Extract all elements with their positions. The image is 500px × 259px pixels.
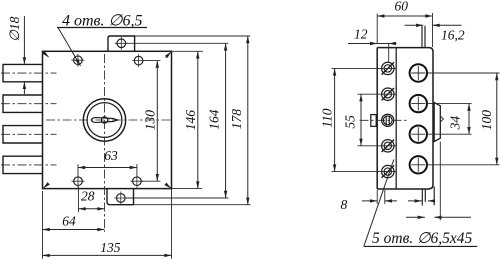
bolt circle 1 bbox=[410, 64, 427, 81]
faceplate right edge / body left line bbox=[395, 48, 397, 189]
top vertical pin bbox=[422, 26, 425, 48]
bolt 1 (top) bbox=[3, 64, 43, 81]
bolt 3 centerline bbox=[1, 133, 57, 135]
dimension 63 bbox=[78, 167, 137, 169]
latch small arrow bbox=[441, 117, 444, 122]
svg-text:64: 64 bbox=[62, 214, 76, 229]
svg-text:60: 60 bbox=[395, 0, 409, 13]
extension line bottom tab bottom right bbox=[134, 204, 251, 206]
svg-text:55: 55 bbox=[342, 115, 357, 129]
svg-text:16,2: 16,2 bbox=[441, 28, 465, 43]
svg-text:63: 63 bbox=[104, 148, 118, 163]
bottom tongue outer bbox=[422, 189, 425, 206]
body bottom edge bbox=[377, 188, 429, 190]
bolt 4 axis extension bbox=[427, 164, 499, 166]
svg-text:8: 8 bbox=[341, 197, 348, 212]
screw 5 bbox=[382, 165, 394, 177]
corner arrow bottom-right bbox=[166, 184, 171, 188]
top tab hole bbox=[117, 39, 126, 48]
extension line bottom tab hole right bbox=[125, 197, 228, 199]
keyhole axis line right view bbox=[360, 119, 409, 121]
keyhole outer circle bbox=[83, 99, 125, 141]
svg-text:100: 100 bbox=[479, 110, 494, 131]
bottom dim arrows row2 bbox=[406, 216, 471, 218]
mounting hole bottom-left bbox=[74, 177, 83, 186]
mounting hole top-left bbox=[74, 56, 83, 65]
key slot profile bbox=[92, 118, 118, 123]
bolt 3 bbox=[3, 126, 43, 143]
label 5 otv underline bbox=[364, 245, 477, 247]
bolt 3 axis extension bbox=[427, 133, 471, 135]
bolt 2 axis extension bbox=[427, 103, 471, 105]
mounting hole top-right bbox=[134, 56, 143, 65]
mounting hole bottom-right bbox=[133, 177, 142, 186]
extension lines 135 bbox=[43, 189, 172, 259]
D18 dim line upper bbox=[23, 16, 25, 64]
dimension 164 bbox=[225, 43, 227, 198]
screw 2 bbox=[382, 88, 394, 100]
screw 2 axis bbox=[358, 93, 397, 95]
dimension 12 bbox=[348, 43, 397, 45]
dimension 100 bbox=[496, 73, 498, 165]
screw 1 bbox=[382, 62, 394, 74]
svg-text:135: 135 bbox=[100, 240, 121, 255]
dimension 16,2 bbox=[405, 24, 424, 26]
key slot center circle bbox=[101, 117, 107, 123]
dimension 130 bbox=[156, 61, 158, 182]
extension line 64 left bbox=[42, 191, 44, 233]
bolt 2 centerline bbox=[1, 103, 57, 105]
latch bolt bbox=[434, 103, 440, 142]
label underline bbox=[57, 27, 147, 29]
dimension 135 bbox=[43, 254, 172, 256]
extension line tab top right bbox=[135, 35, 250, 37]
extension line body bottom right bbox=[172, 188, 203, 190]
top mounting tab bbox=[108, 36, 135, 51]
keyhole vertical centerline bbox=[104, 54, 106, 232]
latch right edge extension line bbox=[439, 142, 441, 221]
screw 4 axis bbox=[358, 145, 397, 147]
bolt 1 centerline bbox=[1, 72, 57, 74]
dimension 64 bbox=[43, 229, 105, 231]
svg-text:28: 28 bbox=[81, 188, 95, 203]
extension line top-right hole bbox=[143, 60, 160, 62]
corner arrow top-right bbox=[166, 52, 172, 58]
bottom mounting tab bbox=[107, 189, 134, 205]
keyhole horizontal centerline bbox=[46, 119, 171, 121]
svg-text:∅18: ∅18 bbox=[7, 16, 22, 42]
svg-text:146: 146 bbox=[183, 110, 198, 131]
leader line 5 otv bbox=[364, 160, 394, 247]
D18 dim line lower bbox=[23, 83, 25, 94]
dimension 110 bbox=[334, 68, 336, 171]
bolt circle 3 bbox=[410, 126, 427, 143]
extension line body top right bbox=[172, 50, 204, 52]
svg-text:5 отв. ∅6,5х45: 5 отв. ∅6,5х45 bbox=[372, 230, 473, 247]
screw 4 bbox=[382, 140, 394, 152]
extension line bottom-right hole bbox=[141, 180, 160, 182]
bolt 4 (bottom) bbox=[3, 156, 43, 173]
dimension 34 bbox=[468, 104, 470, 135]
extension line tab hole center right bbox=[126, 42, 228, 44]
svg-text:34: 34 bbox=[447, 116, 462, 131]
svg-text:12: 12 bbox=[354, 27, 368, 42]
dimension 28 bbox=[79, 208, 105, 210]
extension lines 63 dim bbox=[78, 164, 137, 177]
bottom tongue inner bbox=[433, 187, 435, 206]
svg-text:178: 178 bbox=[229, 109, 244, 129]
dimension 60 bbox=[377, 13, 432, 47]
bolt 1 axis extension bbox=[427, 72, 499, 74]
body top edge with rounded right corner bbox=[377, 48, 433, 189]
dimension 178 bbox=[247, 36, 249, 205]
keyhole inner circle bbox=[87, 103, 122, 138]
svg-text:164: 164 bbox=[206, 109, 221, 130]
bolt circle 2 bbox=[410, 95, 427, 112]
screw 1 axis bbox=[332, 67, 396, 69]
bolt 2 bbox=[3, 95, 43, 112]
bottom tab hole bbox=[117, 194, 126, 203]
corner arrow top-left bbox=[43, 52, 49, 57]
dimension 8 bbox=[377, 190, 385, 204]
corner arrow bottom-left bbox=[44, 184, 49, 188]
bolt circle 4 bbox=[410, 156, 427, 173]
bottom tongue dim arrows row1 bbox=[408, 200, 434, 202]
dimension 146 bbox=[197, 51, 199, 188]
screw 5 axis bbox=[332, 171, 396, 173]
svg-text:110: 110 bbox=[319, 108, 334, 127]
bolt 4 centerline bbox=[1, 164, 57, 166]
keyhole lever square bbox=[371, 115, 376, 127]
extension line 28 left bbox=[78, 187, 80, 213]
leader line to hole bbox=[58, 28, 81, 67]
dimension 55 bbox=[360, 94, 362, 146]
lock body outline (front view) bbox=[43, 51, 172, 188]
screw 3 bbox=[382, 114, 394, 126]
svg-text:130: 130 bbox=[143, 110, 158, 131]
faceplate left edge bbox=[376, 48, 378, 189]
